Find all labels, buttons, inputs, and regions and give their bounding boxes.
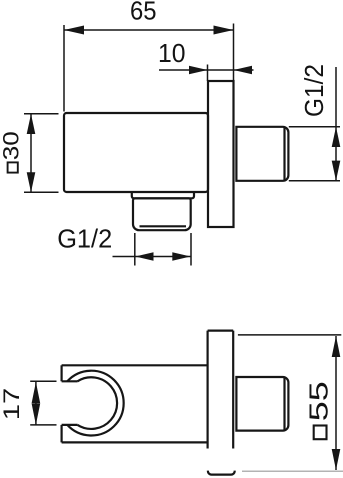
svg-text:65: 65 xyxy=(130,0,157,26)
arrowhead 10 right xyxy=(234,66,253,75)
dim 17 bottom extension xyxy=(30,424,56,426)
holder slot lower lip xyxy=(62,424,78,426)
wall plate (bottom view) left edge xyxy=(207,331,209,449)
arrowhead sq30 top xyxy=(27,114,36,134)
arrowhead 10 left xyxy=(189,66,208,75)
dim 65 line xyxy=(64,29,234,31)
holder ring inner arc xyxy=(78,377,118,429)
dim 17 top extension xyxy=(30,380,56,382)
svg-text:10: 10 xyxy=(158,38,186,68)
label sq30 square symbol xyxy=(8,162,18,172)
dim sq30 top extension xyxy=(24,113,59,115)
dim 65 left extension xyxy=(63,25,65,112)
dim sq30 bottom extension xyxy=(24,191,59,193)
dim 65 / 10 shared right extension xyxy=(233,24,235,82)
right G1/2 threaded nut (bottom view) xyxy=(236,377,288,431)
dim sq30 line xyxy=(30,114,32,192)
holder block left edge upper segment xyxy=(60,365,62,381)
dim 17 line xyxy=(35,382,37,425)
thread end line (top view right nut) xyxy=(283,128,285,181)
right nut top extension xyxy=(289,126,340,128)
wall plate (bottom view) right edge xyxy=(232,331,234,449)
svg-text:G1/2: G1/2 xyxy=(299,64,329,117)
arrowhead 17 top xyxy=(32,382,41,403)
arrowhead 55 top xyxy=(332,336,341,357)
dim G1/2 right leader and line xyxy=(335,67,337,181)
arrowhead G1/2 right bottom xyxy=(332,161,341,181)
wall plate (bottom view) rounded bottom cap xyxy=(208,471,235,475)
thread end line (bottom nut) xyxy=(140,225,187,227)
svg-text:30: 30 xyxy=(0,131,24,160)
dim 10 left extension xyxy=(207,65,209,82)
holder ring outer arc xyxy=(67,371,123,436)
arrowhead 55 bottom xyxy=(332,449,341,470)
holder block bottom edge xyxy=(62,441,208,443)
dim G1/2 bottom leader line xyxy=(113,256,192,258)
svg-text:17: 17 xyxy=(0,388,24,421)
thread end line (bottom view right nut) xyxy=(283,378,285,430)
label 55 square symbol xyxy=(314,426,327,440)
dim 55 line xyxy=(335,336,337,470)
bottom nut right extension xyxy=(190,233,192,266)
svg-text:G1/2: G1/2 xyxy=(57,224,112,254)
arrowhead sq30 bottom xyxy=(27,172,36,192)
arrowhead G1/2 bottom left xyxy=(135,252,153,261)
dim 10 line xyxy=(159,69,254,71)
holder slot upper lip xyxy=(62,380,78,382)
holder block (bottom view) top edge xyxy=(62,364,208,366)
arrowhead G1/2 bottom right xyxy=(172,252,190,261)
bottom G1/2 nut (top view) xyxy=(133,198,191,230)
arrowhead 65 left xyxy=(64,26,84,35)
wall plate (top view, 10 thick) xyxy=(208,81,234,227)
dim 55 bottom extension (faint) xyxy=(242,470,343,472)
bottom nut left extension xyxy=(134,233,136,266)
body outline (top view, 65x30 square body) xyxy=(64,113,208,192)
dim 55 top extension xyxy=(238,334,341,336)
wall plate (bottom view) top edge xyxy=(208,330,234,332)
arrowhead 65 right xyxy=(214,26,234,35)
svg-text:55: 55 xyxy=(304,381,334,421)
right nut bottom extension xyxy=(289,180,340,182)
arrowhead G1/2 right top xyxy=(332,127,341,147)
holder block left edge lower segment xyxy=(60,425,62,443)
collar of bottom outlet (top view) xyxy=(132,192,194,198)
right G1/2 threaded nut (top view) xyxy=(236,127,288,181)
arrowhead 17 bottom xyxy=(32,404,41,425)
